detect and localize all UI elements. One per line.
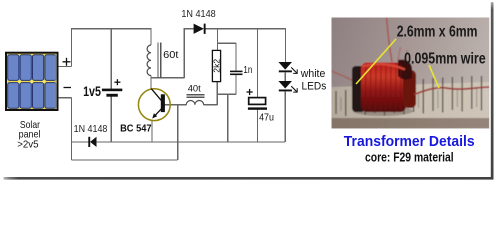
capacitor C2 47u electrolytic <box>248 98 267 110</box>
photo coil red strand plume <box>398 47 408 63</box>
photo bottom taupe strip <box>332 118 490 129</box>
transformer T1 secondary 40t winding <box>186 100 203 104</box>
wire: 60t bottom to collector junction and over to diode riser <box>151 28 184 89</box>
svg-text:1n: 1n <box>243 65 252 76</box>
transistor Q1 emitter stroke with arrow <box>152 109 161 119</box>
battery + sign <box>114 79 120 85</box>
battery B1 1v5 <box>102 89 122 97</box>
svg-text:60t: 60t <box>163 50 178 61</box>
svg-text:2.6mm x 6mm: 2.6mm x 6mm <box>397 23 478 40</box>
wire: battery drop from rail <box>110 29 112 142</box>
transistor Q1 base bar <box>161 94 165 112</box>
photo coil red wire up-top <box>387 18 392 63</box>
wire: 47u leads <box>257 29 259 142</box>
wire: emitter lead down <box>151 120 153 142</box>
svg-text:BC 547: BC 547 <box>120 123 152 134</box>
svg-text:LEDs: LEDs <box>302 81 327 93</box>
wire: base-rail drop at x=177.6 <box>177 105 179 160</box>
wire: emitter rail (wire A) <box>72 141 286 143</box>
wire: solar minus to bottom rail <box>59 98 72 160</box>
svg-text:white: white <box>300 68 325 80</box>
wire: LED string drop from rail <box>284 28 286 142</box>
svg-text:Transformer Details: Transformer Details <box>344 134 475 150</box>
wire: 2k2 bottom lead to 40t right end <box>216 82 218 105</box>
wire: left vertical from rail to solar + <box>59 28 72 66</box>
svg-text:1v5: 1v5 <box>83 84 101 99</box>
photo red wire wavy right <box>414 87 489 95</box>
svg-text:core: F29 material: core: F29 material <box>365 151 454 165</box>
svg-text:>2v5: >2v5 <box>17 140 39 151</box>
label: white LEDs <box>300 68 327 92</box>
wire: bottom rail <box>72 159 178 161</box>
capacitor C2 plus sign <box>247 89 253 95</box>
photo yellow pointer left <box>356 39 396 84</box>
photo transformer coil <box>352 60 416 116</box>
label: Solar panel >2v5 <box>17 120 40 151</box>
diode D1 1N4148 (series output diode) <box>194 24 206 34</box>
svg-text:0.095mm wire: 0.095mm wire <box>404 51 486 68</box>
svg-text:1N 4148: 1N 4148 <box>74 124 108 135</box>
LED D3 emission arrow <box>291 67 297 73</box>
node -: solar minus sign <box>64 87 72 89</box>
wire: rail corner down to 60t primary top <box>150 28 152 45</box>
photo yellow pointer right <box>429 65 439 88</box>
wire: top rail right (output rail) <box>184 28 285 30</box>
solar panel PV1 <box>6 53 58 110</box>
photo background <box>329 15 492 131</box>
svg-text:2k2: 2k2 <box>211 59 221 73</box>
wire: 1n top lead <box>235 43 237 70</box>
node +: solar plus sign <box>63 58 71 66</box>
transistor Q1 collector stroke <box>151 89 161 101</box>
photo ruler band <box>332 76 490 118</box>
resistor R1 2k2 <box>211 50 221 81</box>
wire: 1n bottom lead to junction <box>217 75 236 94</box>
LED D3 white <box>278 62 292 72</box>
wire: 2k2 drop from rail <box>218 29 237 51</box>
wire: base wire from transistor to 40t <box>164 104 217 106</box>
svg-text:40t: 40t <box>188 84 201 95</box>
LED D4 emission arrow <box>291 86 297 92</box>
diode D2 1N4148 (bottom, pointing left) <box>88 137 96 147</box>
svg-text:47u: 47u <box>259 113 274 124</box>
transformer T1 primary 60t winding <box>147 45 151 76</box>
transformer T1 core bars (horizontal) <box>187 95 205 98</box>
capacitor C1 1n <box>230 71 243 76</box>
LED D4 white <box>278 81 292 91</box>
transistor Q1 BC547 circle <box>138 89 170 121</box>
photo coil red wire up-left <box>329 70 358 83</box>
wire: top rail left (battery+ rail) <box>72 28 152 30</box>
transformer T1 core bars (vertical) <box>158 43 161 79</box>
frame shadow right <box>491 2 494 179</box>
frame shadow bottom <box>4 177 494 180</box>
wire: junction drop to emitter rail <box>227 94 229 142</box>
svg-text:1N 4148: 1N 4148 <box>181 9 215 20</box>
